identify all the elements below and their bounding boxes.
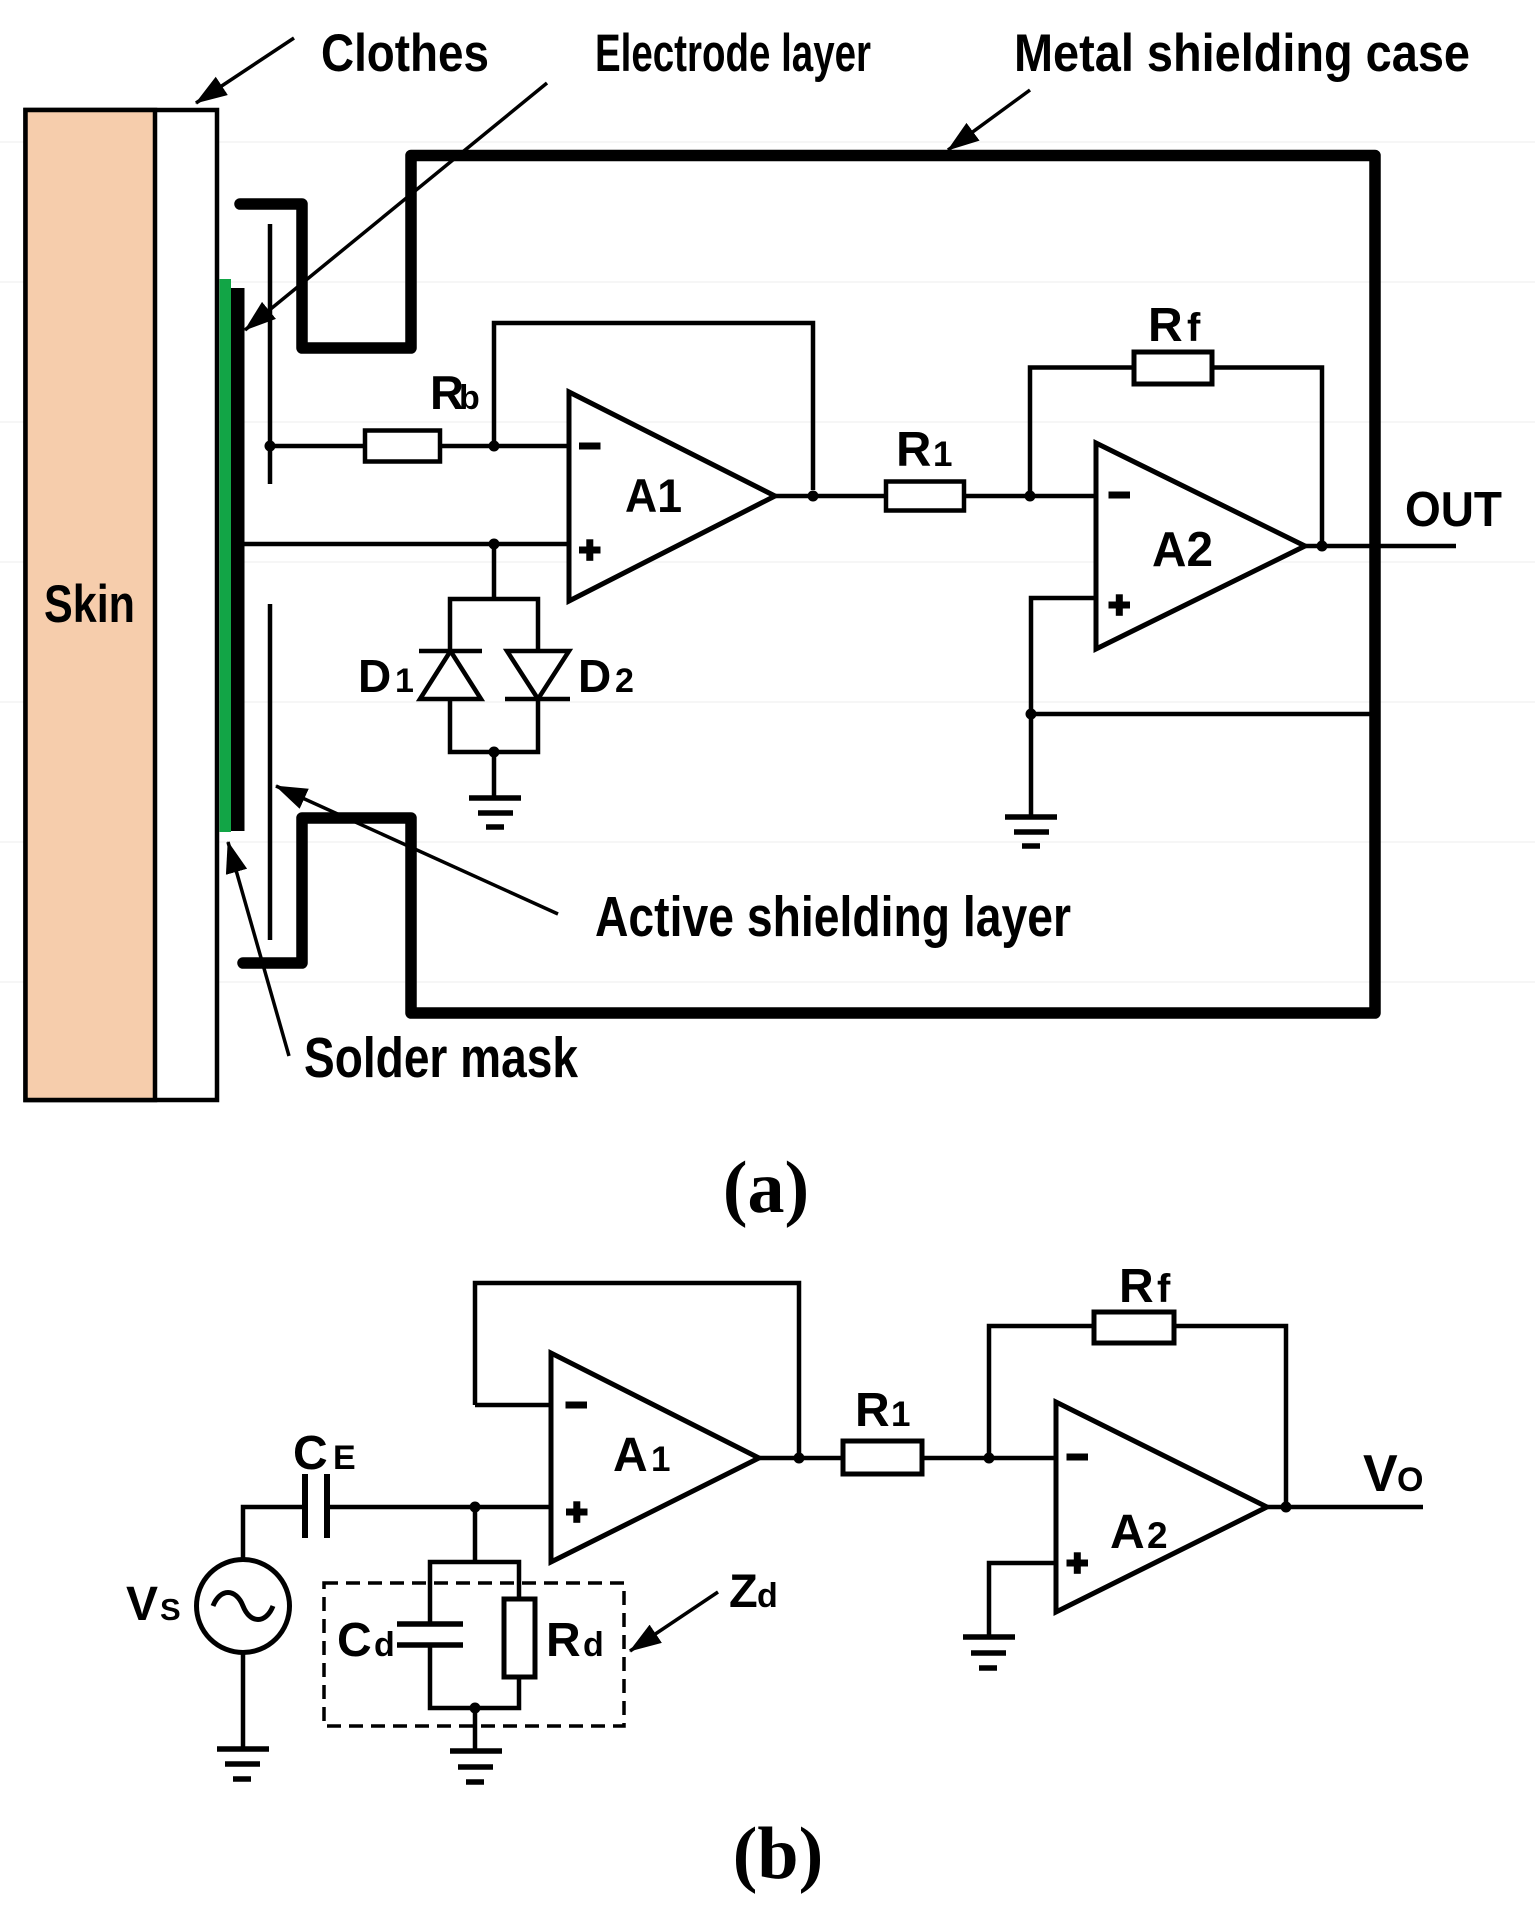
resistor Rb xyxy=(365,431,440,462)
svg-text:A2: A2 xyxy=(1152,523,1213,577)
svg-text:Metal shielding case: Metal shielding case xyxy=(1014,24,1470,83)
wire A2 plus input xyxy=(1031,598,1096,817)
wire A2b feedback left xyxy=(989,1326,1094,1458)
wire A2b feedback right xyxy=(1174,1326,1286,1508)
wire A2 feedback left xyxy=(1030,368,1134,497)
wire node down to Zd xyxy=(473,1507,478,1562)
metal shielding case xyxy=(240,156,1375,1014)
svg-text:A1: A1 xyxy=(625,469,682,522)
op-amp A2b xyxy=(1056,1402,1267,1612)
wire to ground Zd xyxy=(473,1708,478,1751)
node Zd junction xyxy=(470,1502,481,1513)
arrow to clothes xyxy=(196,38,294,103)
A1b plus pin xyxy=(566,1501,588,1523)
resistor R1 xyxy=(886,482,964,511)
svg-text:Skin: Skin xyxy=(44,575,135,634)
svg-text:Active shielding layer: Active shielding layer xyxy=(595,885,1071,949)
svg-text:Rf: Rf xyxy=(1119,1260,1171,1313)
svg-text:Solder mask: Solder mask xyxy=(304,1026,578,1090)
wire Vo output xyxy=(1267,1505,1423,1510)
sine wave xyxy=(213,1593,273,1620)
ground diode pair xyxy=(469,798,521,827)
arrow to active shielding layer xyxy=(276,786,558,914)
A2 plus pin xyxy=(1109,594,1131,616)
wire A1 feedback loop xyxy=(494,323,813,490)
wire A1b output xyxy=(759,1456,843,1461)
wire Vs to CE xyxy=(243,1507,302,1560)
wire Vs to ground xyxy=(241,1652,246,1749)
faint gridlines xyxy=(0,142,1535,982)
A1 minus pin xyxy=(579,443,601,450)
box Zd dashed xyxy=(324,1583,624,1726)
op-amp A2 xyxy=(1096,443,1305,649)
wire to ground xyxy=(492,752,497,798)
ground A2b xyxy=(963,1637,1015,1668)
source Vs xyxy=(197,1560,290,1653)
wire down to diode pair xyxy=(492,544,497,599)
wire to Rb xyxy=(270,444,365,449)
A2b plus pin xyxy=(1067,1552,1089,1574)
node A2b input junction xyxy=(984,1453,995,1464)
svg-text:(a): (a) xyxy=(723,1147,809,1229)
arrow to solder mask xyxy=(228,842,289,1056)
node A2 plus junction xyxy=(1026,709,1037,720)
resistor Rf xyxy=(1134,352,1212,384)
wire A1b minus stub xyxy=(475,1403,551,1408)
wire electrode to A1 plus input xyxy=(244,542,569,547)
electrode layer (green bar) xyxy=(220,279,232,832)
wire A1b feedback loop xyxy=(475,1283,799,1453)
resistor Rd xyxy=(504,1599,535,1677)
wire Rb to A1 inverting input xyxy=(440,444,569,449)
node A1b output xyxy=(794,1453,805,1464)
node electrode-Rb junction xyxy=(265,441,276,452)
wire Zd bottom rail xyxy=(430,1645,519,1708)
diode D1 xyxy=(419,651,482,699)
wire Zd top rail xyxy=(430,1562,519,1624)
node A2 input junction xyxy=(1025,491,1036,502)
arrow Zd to box xyxy=(630,1592,718,1651)
skin rectangle xyxy=(26,110,156,1100)
node A1 feedback junction xyxy=(489,441,500,452)
wire diode bottom rail xyxy=(450,699,538,752)
node OUT junction xyxy=(1317,541,1328,552)
capacitor CE plates xyxy=(305,1474,327,1538)
A2 minus pin xyxy=(1109,492,1131,499)
wire A1 output to R1 xyxy=(775,494,886,499)
ground Zd xyxy=(450,1751,502,1782)
ground A2 xyxy=(1005,817,1057,846)
wire diode top rail xyxy=(450,599,538,651)
arrow to case xyxy=(948,90,1030,150)
resistor Rfb xyxy=(1094,1312,1174,1343)
wire OUT xyxy=(1305,544,1456,549)
resistor R1b xyxy=(843,1441,922,1474)
wire across to case xyxy=(1031,712,1375,717)
wire A2b plus input xyxy=(989,1563,1056,1637)
A2b minus pin xyxy=(1067,1454,1089,1461)
wire electrode vertical xyxy=(268,224,273,484)
wire R1 to A2 inverting input xyxy=(964,494,1096,499)
node Zd bottom xyxy=(470,1703,481,1714)
op-amp A1 xyxy=(569,392,775,601)
A1b minus pin xyxy=(566,1402,588,1409)
node plus input junction xyxy=(489,539,500,550)
A1 plus pin xyxy=(579,539,601,561)
svg-text:Electrode layer: Electrode layer xyxy=(595,24,871,83)
node Vo junction xyxy=(1281,1502,1292,1513)
wire A2 feedback right xyxy=(1212,368,1322,547)
node A1 output xyxy=(808,491,819,502)
op-amp A1b xyxy=(551,1353,759,1562)
wire CE to A1b plus xyxy=(330,1505,551,1510)
ground Vs xyxy=(217,1749,269,1779)
node diode bottom xyxy=(489,747,500,758)
svg-text:Rf: Rf xyxy=(1148,299,1201,352)
diode D2 xyxy=(505,651,570,699)
wire active shielding layer line xyxy=(268,604,273,940)
clothes layer rectangle xyxy=(26,110,218,1100)
solder mask (black bar) xyxy=(231,288,245,831)
wire R1b to A2b xyxy=(922,1456,1056,1461)
arrow to electrode layer xyxy=(245,83,547,330)
svg-text:(b): (b) xyxy=(733,1813,823,1895)
capacitor Cd xyxy=(397,1624,463,1645)
svg-text:Clothes: Clothes xyxy=(321,24,489,83)
svg-text:OUT: OUT xyxy=(1405,483,1502,537)
